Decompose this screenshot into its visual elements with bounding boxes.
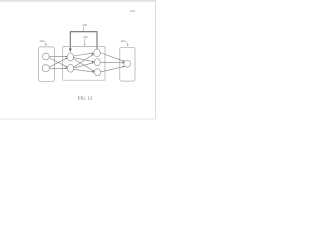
- svg-text:128: 128: [82, 23, 87, 27]
- svg-text:1200: 1200: [130, 11, 136, 13]
- svg-text:126: 126: [83, 35, 88, 39]
- svg-text:FIG. 12: FIG. 12: [78, 95, 93, 100]
- svg-text:110: 110: [121, 39, 126, 43]
